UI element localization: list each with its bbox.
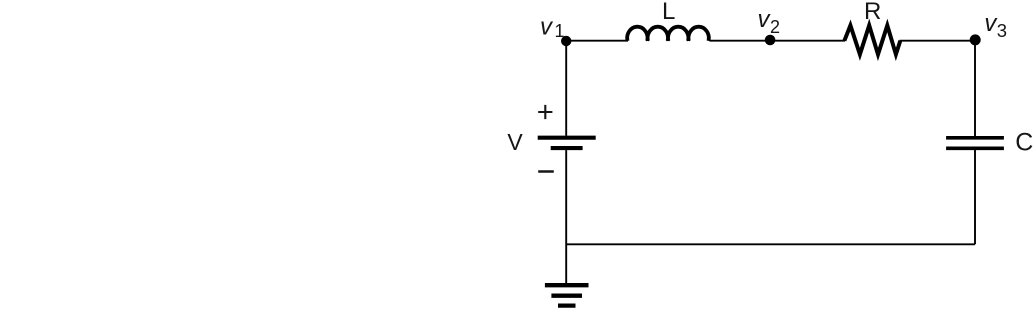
battery plus sign: [538, 105, 552, 119]
svg-text:R: R: [864, 0, 881, 25]
svg-text:v: v: [540, 13, 554, 40]
svg-text:V: V: [507, 129, 523, 155]
svg-text:C: C: [1015, 128, 1033, 156]
wire: capacitor bottom to bottom rail: [974, 150, 976, 244]
resistor R: [844, 25, 900, 54]
node v3 dot: [970, 34, 981, 45]
wire: v1 down to battery top: [565, 41, 567, 136]
ground: [545, 285, 589, 305]
battery source V: short plate: [551, 146, 583, 150]
node v1 dot: [561, 36, 571, 46]
wire: bottom rail: [566, 243, 975, 245]
capacitor C: top plate: [946, 136, 1004, 140]
wire: resistor to v3: [900, 40, 976, 42]
svg-text:3: 3: [997, 20, 1007, 41]
capacitor C: bottom plate: [946, 147, 1004, 151]
wire: v3 down to capacitor top: [974, 41, 976, 137]
node v2 dot: [765, 35, 776, 46]
svg-text:L: L: [662, 0, 675, 25]
svg-text:1: 1: [555, 21, 565, 41]
wire: inductor to v2 to resistor: [710, 40, 846, 42]
battery source V: long plate: [538, 136, 596, 140]
svg-text:2: 2: [770, 17, 780, 37]
wire: v1 to inductor: [566, 40, 628, 42]
wire: battery bottom down to bottom rail and ground lead: [565, 150, 567, 283]
battery minus sign: [538, 170, 554, 173]
inductor L: [627, 27, 709, 41]
